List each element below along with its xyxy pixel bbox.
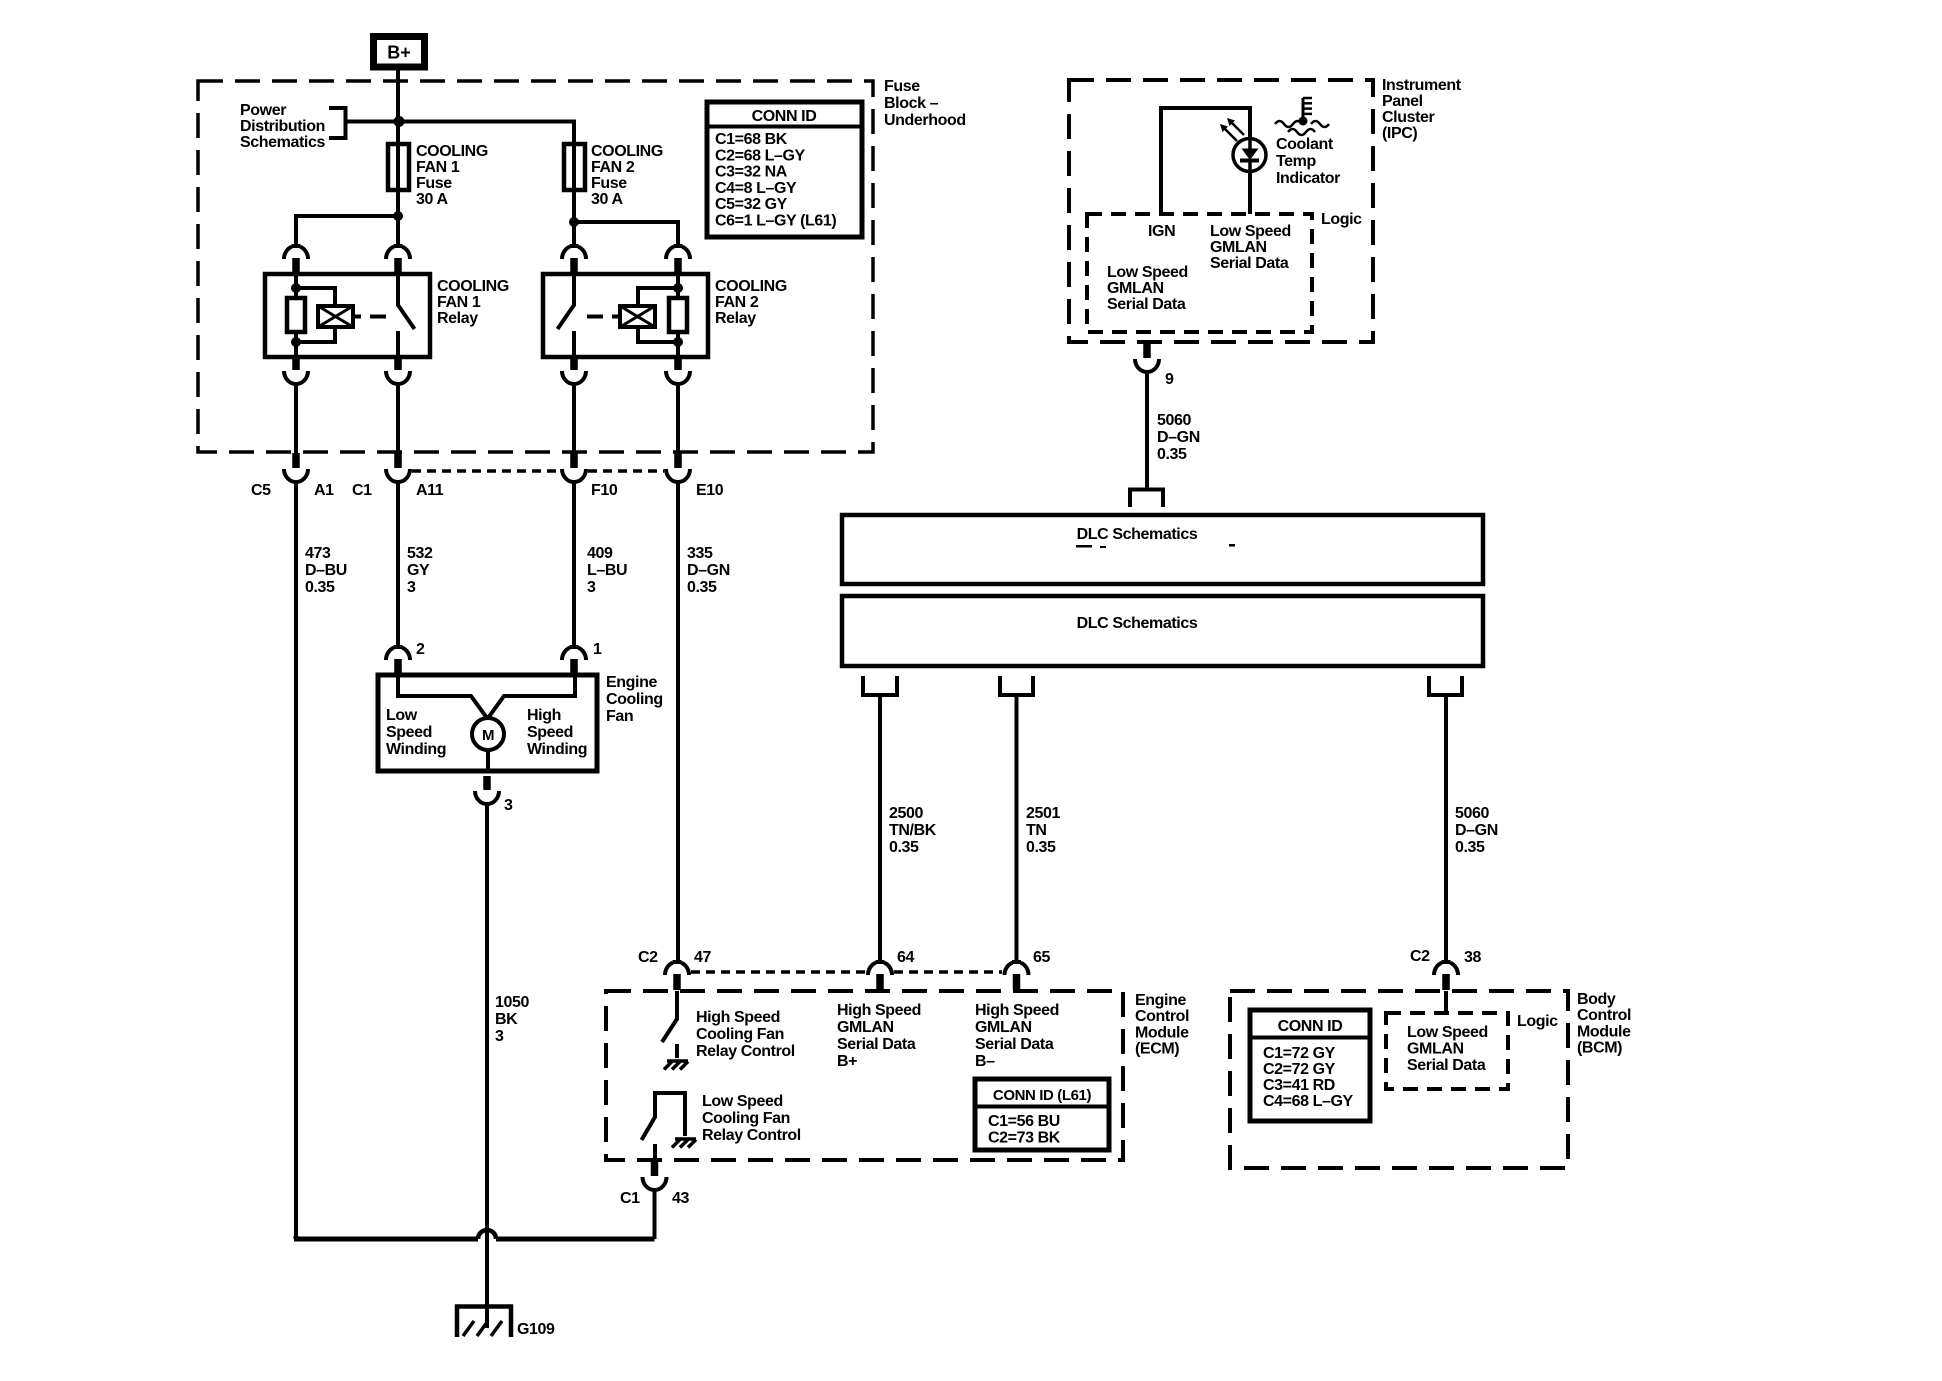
connector pin into relay K1 switch side: [386, 244, 410, 274]
svg-text:CONN ID: CONN ID: [1278, 1018, 1343, 1035]
label pin 3: [504, 797, 513, 814]
ECM in-line connector strip: [691, 970, 1002, 974]
svg-text:B+: B+: [837, 1053, 857, 1070]
svg-text:Speed: Speed: [527, 724, 573, 741]
label Logic (BCM): [1517, 1013, 1558, 1030]
svg-text:C1: C1: [352, 482, 372, 499]
svg-text:Power: Power: [240, 102, 286, 119]
label A11: [416, 482, 444, 499]
svg-text:2501: 2501: [1026, 805, 1060, 822]
BCM CONN ID table: [1250, 1010, 1370, 1121]
label COOLING FAN 1 Fuse 30 A: [416, 143, 488, 208]
svg-text:Low Speed: Low Speed: [1107, 264, 1188, 281]
wire fuse F1 to relay branches: [296, 190, 398, 247]
connector bracket DLC to ECM 65: [1000, 676, 1033, 695]
svg-text:3: 3: [504, 797, 513, 814]
label E10: [696, 482, 724, 499]
node relay K2 bottom: [673, 337, 683, 347]
label Low Speed Winding: [386, 707, 446, 758]
svg-text:Logic: Logic: [1321, 211, 1362, 228]
svg-text:Distribution: Distribution: [240, 118, 325, 135]
label 335 D-GN 0.35: [687, 545, 730, 596]
wire fuse F2 to relay branches: [574, 190, 678, 247]
label pin 64: [897, 949, 914, 966]
svg-text:B–: B–: [975, 1053, 995, 1070]
svg-text:DLC Schematics: DLC Schematics: [1077, 526, 1198, 543]
svg-text:Serial Data: Serial Data: [1107, 296, 1186, 313]
connector pin 43 below ECM: [643, 1161, 667, 1190]
connector pin 47 into ECM: [665, 960, 689, 990]
resistor inside relay K1: [287, 298, 305, 332]
wire 2501 TN 0.35: [1015, 695, 1019, 963]
connector pin 65 into ECM: [1004, 960, 1028, 990]
svg-text:Cooling Fan: Cooling Fan: [702, 1110, 790, 1127]
in-line connector strip: [412, 469, 664, 473]
svg-text:High Speed: High Speed: [837, 1002, 921, 1019]
svg-text:Relay: Relay: [715, 310, 756, 327]
svg-text:Fuse: Fuse: [416, 175, 452, 192]
svg-text:FAN 1: FAN 1: [437, 294, 481, 311]
Power Distribution Schematics reference label: [240, 102, 325, 151]
svg-text:Low Speed: Low Speed: [702, 1093, 783, 1110]
svg-text:409: 409: [587, 545, 613, 562]
svg-text:5060: 5060: [1157, 412, 1191, 429]
svg-text:Underhood: Underhood: [884, 112, 966, 129]
svg-text:COOLING: COOLING: [715, 278, 787, 295]
svg-text:L–BU: L–BU: [587, 562, 627, 579]
svg-text:Module: Module: [1135, 1024, 1189, 1041]
relay K1 switch: [398, 274, 415, 357]
label Fuse Block - Underhood: [884, 78, 966, 129]
engine cooling fan box: [378, 675, 597, 771]
relay K2 dashed actuator link: [587, 315, 603, 319]
label pin 9: [1165, 371, 1174, 388]
wire junction to Cooling Fan 2 fuse: [398, 120, 574, 147]
node relay K1 top: [291, 283, 301, 293]
node: power distribution junction: [394, 116, 405, 127]
label Coolant Temp Indicator: [1276, 136, 1340, 187]
instrument panel cluster dashed boundary: [1069, 80, 1373, 342]
svg-text:Relay Control: Relay Control: [702, 1127, 801, 1144]
svg-text:Engine: Engine: [1135, 992, 1186, 1009]
svg-text:C1: C1: [620, 1190, 640, 1207]
svg-text:FAN 2: FAN 2: [715, 294, 759, 311]
fuse block CONN ID table: [707, 102, 862, 237]
svg-text:Serial Data: Serial Data: [1407, 1057, 1486, 1074]
svg-text:30 A: 30 A: [416, 191, 448, 208]
svg-text:Fuse: Fuse: [884, 78, 920, 95]
svg-text:D–GN: D–GN: [1157, 429, 1200, 446]
svg-text:Low: Low: [386, 707, 418, 724]
svg-text:High Speed: High Speed: [696, 1009, 780, 1026]
fuse block - underhood dashed boundary: [198, 81, 873, 452]
svg-text:1: 1: [593, 641, 602, 658]
svg-text:C2: C2: [638, 949, 658, 966]
svg-text:FAN 2: FAN 2: [591, 159, 635, 176]
svg-text:43: 43: [672, 1190, 689, 1207]
svg-text:GMLAN: GMLAN: [837, 1019, 894, 1036]
wire 2500 TN/BK 0.35: [878, 695, 882, 963]
svg-text:0.35: 0.35: [1157, 446, 1187, 463]
relay K1 dashed actuator link: [370, 315, 386, 319]
svg-text:Relay: Relay: [437, 310, 478, 327]
svg-text:47: 47: [694, 949, 711, 966]
connector pin 3 below engine cooling fan: [475, 776, 499, 804]
label G109: [517, 1321, 555, 1338]
connector bracket on DLC schematics box: [1130, 490, 1163, 508]
ground at low speed relay control: [672, 1139, 696, 1148]
ECM CONN ID (L61) table: [975, 1079, 1109, 1150]
svg-text:BK: BK: [495, 1011, 518, 1028]
svg-text:D–BU: D–BU: [305, 562, 347, 579]
label pin 1: [593, 641, 602, 658]
engine control module dashed boundary: [606, 991, 1123, 1160]
svg-text:Panel: Panel: [1382, 93, 1423, 110]
label C1: [352, 482, 372, 499]
wire relay K1 coil side to fuse block edge: [294, 383, 298, 453]
svg-text:Schematics: Schematics: [240, 134, 325, 151]
svg-text:Fan: Fan: [606, 708, 633, 725]
wire hop over ground wire: [478, 1230, 496, 1239]
svg-text:C5=32 GY: C5=32 GY: [715, 196, 788, 213]
svg-text:C5: C5: [251, 482, 271, 499]
svg-text:DLC Schematics: DLC Schematics: [1077, 615, 1198, 632]
label 532 GY 3: [407, 545, 433, 596]
wire 409 L-BU 3: [572, 481, 576, 648]
relay K1 coil (crossed box): [318, 306, 361, 327]
svg-text:Control: Control: [1135, 1008, 1189, 1025]
low speed relay control switch: [642, 1093, 686, 1161]
fan high speed winding feed: [488, 675, 575, 718]
relay K2 coil-side wire: [676, 274, 680, 357]
connector pin 2 into engine cooling fan: [386, 645, 410, 675]
connector pin 38 into BCM: [1434, 960, 1458, 990]
svg-text:Temp: Temp: [1276, 153, 1317, 170]
svg-text:64: 64: [897, 949, 914, 966]
fan motor M: [472, 718, 504, 750]
svg-text:Serial Data: Serial Data: [837, 1036, 916, 1053]
svg-text:C1=56 BU: C1=56 BU: [988, 1113, 1060, 1130]
relay K2 COOLING FAN 2 box: [543, 274, 708, 357]
connector pin into relay K2 coil side: [666, 244, 690, 274]
label COOLING FAN 1 Relay: [437, 278, 509, 327]
svg-text:9: 9: [1165, 371, 1174, 388]
wire 5060 D-GN 0.35 (DLC to BCM): [1444, 695, 1448, 963]
label COOLING FAN 2 Relay: [715, 278, 787, 327]
relay K1 coil parallel branch: [296, 288, 335, 342]
svg-text:C4=68 L–GY: C4=68 L–GY: [1263, 1093, 1354, 1110]
svg-text:GMLAN: GMLAN: [1210, 239, 1267, 256]
label C1 (ECM 43): [620, 1190, 640, 1207]
DLC Schematics box (lower): [842, 596, 1483, 666]
svg-text:0.35: 0.35: [1455, 839, 1485, 856]
label pin 2: [416, 641, 425, 658]
ground at high speed relay control: [664, 1061, 688, 1070]
svg-text:C6=1 L–GY (L61): C6=1 L–GY (L61): [715, 213, 836, 230]
svg-text:Relay Control: Relay Control: [696, 1043, 795, 1060]
wire coolant temp indicator to logic box: [1248, 171, 1252, 214]
svg-text:C2: C2: [1410, 948, 1430, 965]
ground G109 symbol: [457, 1307, 511, 1338]
wire B+ to Cooling Fan 1 fuse: [396, 70, 400, 146]
svg-text:Block –: Block –: [884, 95, 939, 112]
svg-text:A11: A11: [416, 482, 444, 499]
svg-text:High Speed: High Speed: [975, 1002, 1059, 1019]
svg-text:High: High: [527, 707, 561, 724]
svg-text:C4=8 L–GY: C4=8 L–GY: [715, 180, 797, 197]
bracket for Power Distribution Schematics: [329, 106, 398, 140]
label 1050 BK 3: [495, 994, 529, 1045]
svg-text:GMLAN: GMLAN: [1407, 1041, 1464, 1058]
connector bracket DLC to ECM 64: [863, 676, 897, 695]
connector stub below relay K2 coil side: [666, 356, 690, 384]
connector pin 64 into ECM: [868, 960, 892, 990]
node relay K2 top: [673, 283, 683, 293]
svg-text:C1=72 GY: C1=72 GY: [1263, 1045, 1336, 1062]
label pin 65: [1033, 949, 1050, 966]
svg-text:F10: F10: [591, 482, 618, 499]
label F10: [591, 482, 618, 499]
label IGN: [1148, 223, 1175, 240]
svg-text:FAN 1: FAN 1: [416, 159, 460, 176]
relay K2 coil parallel branch: [638, 288, 678, 342]
battery feed B+ terminal: [374, 37, 425, 68]
svg-text:(ECM): (ECM): [1135, 1041, 1179, 1058]
label 2501 TN 0.35: [1026, 805, 1060, 856]
svg-text:COOLING: COOLING: [416, 143, 488, 160]
connector pin into relay K2 switch side: [562, 244, 586, 274]
svg-text:Instrument: Instrument: [1382, 77, 1462, 94]
svg-text:IGN: IGN: [1148, 223, 1175, 240]
wire relay K2 coil side to fuse block edge: [676, 383, 680, 453]
wire 335 D-GN 0.35: [676, 481, 680, 963]
connector stub below relay K2 switch side: [562, 356, 586, 384]
connector pin into relay K1 coil side: [284, 244, 308, 274]
connector stub below relay K1 coil side: [284, 356, 308, 384]
wire ECM 43 to low speed relay coil: [653, 1189, 657, 1239]
relay K1 coil-side wire: [294, 274, 298, 357]
svg-text:D–GN: D–GN: [1455, 822, 1498, 839]
label High Speed GMLAN Serial Data B+: [837, 1002, 921, 1070]
label pin 47: [694, 949, 711, 966]
label High Speed GMLAN Serial Data B-: [975, 1002, 1059, 1070]
svg-text:473: 473: [305, 545, 331, 562]
label Body Control Module (BCM): [1577, 991, 1631, 1057]
svg-text:C1=68 BK: C1=68 BK: [715, 131, 788, 148]
label pin 38: [1464, 949, 1481, 966]
svg-text:Serial Data: Serial Data: [975, 1036, 1054, 1053]
wire relay K1 switch side to fuse block edge: [396, 383, 400, 453]
svg-text:0.35: 0.35: [687, 579, 717, 596]
wire IGN to coolant temp indicator: [1161, 108, 1250, 214]
svg-text:TN/BK: TN/BK: [889, 822, 937, 839]
svg-text:(BCM): (BCM): [1577, 1040, 1622, 1057]
svg-text:0.35: 0.35: [1026, 839, 1056, 856]
wire 473 D-BU 0.35: [294, 481, 298, 1242]
svg-text:Fuse: Fuse: [591, 175, 627, 192]
label C2 (BCM connector): [1410, 948, 1430, 965]
svg-text:Logic: Logic: [1517, 1013, 1558, 1030]
connector C5/A1 at fuse block boundary: [284, 453, 308, 482]
connector E10 at fuse block boundary: [666, 453, 690, 482]
svg-text:5060: 5060: [1455, 805, 1489, 822]
body control module dashed boundary: [1230, 991, 1568, 1168]
label Low Speed GMLAN Serial Data (IPC left): [1107, 264, 1188, 313]
svg-text:Cluster: Cluster: [1382, 109, 1434, 126]
svg-text:Coolant: Coolant: [1276, 136, 1334, 153]
label Low Speed Cooling Fan Relay Control: [702, 1093, 801, 1144]
relay K2 switch: [558, 274, 575, 357]
relay K1 COOLING FAN 1 box: [265, 274, 430, 357]
coolant temp indicator LED: [1233, 139, 1266, 172]
svg-text:Speed: Speed: [386, 724, 432, 741]
svg-text:GY: GY: [407, 562, 430, 579]
residue marks under DLC text: [1076, 544, 1235, 548]
svg-text:E10: E10: [696, 482, 724, 499]
connector F10 at fuse block boundary: [562, 453, 586, 482]
node below fuse F2: [569, 217, 579, 227]
svg-text:D–GN: D–GN: [687, 562, 730, 579]
svg-text:CONN ID (L61): CONN ID (L61): [993, 1087, 1092, 1104]
connector pin 1 into engine cooling fan: [562, 645, 586, 675]
LED indicator arrows: [1220, 118, 1244, 141]
label Low Speed GMLAN Serial Data (BCM): [1407, 1024, 1488, 1074]
svg-text:G109: G109: [517, 1321, 555, 1338]
svg-text:Cooling: Cooling: [606, 691, 663, 708]
label C5: [251, 482, 271, 499]
svg-text:COOLING: COOLING: [437, 278, 509, 295]
svg-text:Cooling Fan: Cooling Fan: [696, 1026, 784, 1043]
svg-text:38: 38: [1464, 949, 1481, 966]
svg-text:Indicator: Indicator: [1276, 170, 1340, 187]
svg-text:C3=32 NA: C3=32 NA: [715, 164, 788, 181]
connector bracket DLC to BCM 38: [1429, 676, 1462, 695]
node relay K1 bottom: [291, 337, 301, 347]
svg-text:TN: TN: [1026, 822, 1047, 839]
fuse F1 COOLING FAN 1 30A: [388, 144, 409, 190]
label pin 43: [672, 1190, 689, 1207]
svg-text:Serial Data: Serial Data: [1210, 255, 1289, 272]
label 409 L-BU 3: [587, 545, 627, 596]
label 5060 D-GN 0.35 (upper): [1157, 412, 1200, 463]
label Low Speed GMLAN Serial Data (IPC right): [1210, 223, 1291, 272]
svg-text:Body: Body: [1577, 991, 1616, 1008]
svg-text:COOLING: COOLING: [591, 143, 663, 160]
label Instrument Panel Cluster (IPC): [1382, 77, 1462, 142]
svg-text:Control: Control: [1577, 1007, 1631, 1024]
label A1: [314, 482, 334, 499]
svg-text:CONN ID: CONN ID: [752, 108, 817, 125]
wire BCM 38 to logic box: [1444, 991, 1448, 1013]
svg-text:2: 2: [416, 641, 425, 658]
svg-text:532: 532: [407, 545, 433, 562]
BCM logic dashed box: [1386, 1013, 1508, 1089]
svg-text:Module: Module: [1577, 1023, 1631, 1040]
resistor inside relay K2: [669, 298, 687, 332]
svg-text:0.35: 0.35: [305, 579, 335, 596]
svg-text:(IPC): (IPC): [1382, 125, 1417, 142]
label 5060 D-GN 0.35 (lower): [1455, 805, 1498, 856]
svg-text:GMLAN: GMLAN: [975, 1019, 1032, 1036]
svg-text:Winding: Winding: [527, 741, 587, 758]
connector stub below relay K1 switch side: [386, 356, 410, 384]
connector C1/A11 at fuse block boundary: [386, 453, 410, 482]
svg-text:M: M: [482, 727, 494, 744]
svg-text:C2=73 BK: C2=73 BK: [988, 1130, 1061, 1147]
node below fuse F1: [393, 211, 403, 221]
coolant temp thermometer icon: [1275, 98, 1329, 135]
wire relay K2 switch side to fuse block edge: [572, 383, 576, 453]
wire 5060 D-GN 0.35 (IPC to DLC): [1145, 371, 1149, 489]
svg-text:3: 3: [407, 579, 416, 596]
fan low speed winding feed: [398, 675, 487, 718]
IPC logic dashed box: [1087, 214, 1312, 332]
svg-text:Winding: Winding: [386, 741, 446, 758]
wire 532 GY 3: [396, 481, 400, 648]
label COOLING FAN 2 Fuse 30 A: [591, 143, 663, 208]
svg-text:Low Speed: Low Speed: [1210, 223, 1291, 240]
connector pin 9 below IPC: [1135, 343, 1159, 372]
svg-text:3: 3: [495, 1028, 504, 1045]
label Logic (IPC): [1321, 211, 1362, 228]
svg-text:B+: B+: [387, 43, 411, 63]
relay K2 coil (crossed box): [612, 306, 655, 327]
svg-text:Engine: Engine: [606, 674, 657, 691]
label Engine Cooling Fan: [606, 674, 663, 725]
svg-text:A1: A1: [314, 482, 334, 499]
high speed relay control switch: [662, 991, 677, 1058]
svg-text:3: 3: [587, 579, 596, 596]
svg-text:GMLAN: GMLAN: [1107, 280, 1164, 297]
fuse F2 COOLING FAN 2 30A: [564, 144, 585, 190]
label 473 D-BU 0.35: [305, 545, 347, 596]
svg-text:2500: 2500: [889, 805, 923, 822]
svg-text:Low Speed: Low Speed: [1407, 1024, 1488, 1041]
label C2 (ECM connector): [638, 949, 658, 966]
svg-text:C2=68 L–GY: C2=68 L–GY: [715, 147, 806, 164]
svg-text:335: 335: [687, 545, 713, 562]
label High Speed Winding: [527, 707, 587, 758]
label Engine Control Module (ECM): [1135, 992, 1189, 1058]
svg-text:1050: 1050: [495, 994, 529, 1011]
label High Speed Cooling Fan Relay Control: [696, 1009, 795, 1060]
wire 1050 BK 3: [485, 803, 489, 1328]
svg-text:0.35: 0.35: [889, 839, 919, 856]
fan motor ground lead: [486, 750, 490, 771]
DLC Schematics box (upper): [842, 515, 1483, 584]
wire low speed relay control bus (horizontal): [296, 1236, 655, 1239]
svg-text:65: 65: [1033, 949, 1050, 966]
svg-text:C3=41 RD: C3=41 RD: [1263, 1077, 1335, 1094]
svg-text:C2=72 GY: C2=72 GY: [1263, 1061, 1336, 1078]
svg-text:30 A: 30 A: [591, 191, 623, 208]
label 2500 TN/BK 0.35: [889, 805, 937, 856]
